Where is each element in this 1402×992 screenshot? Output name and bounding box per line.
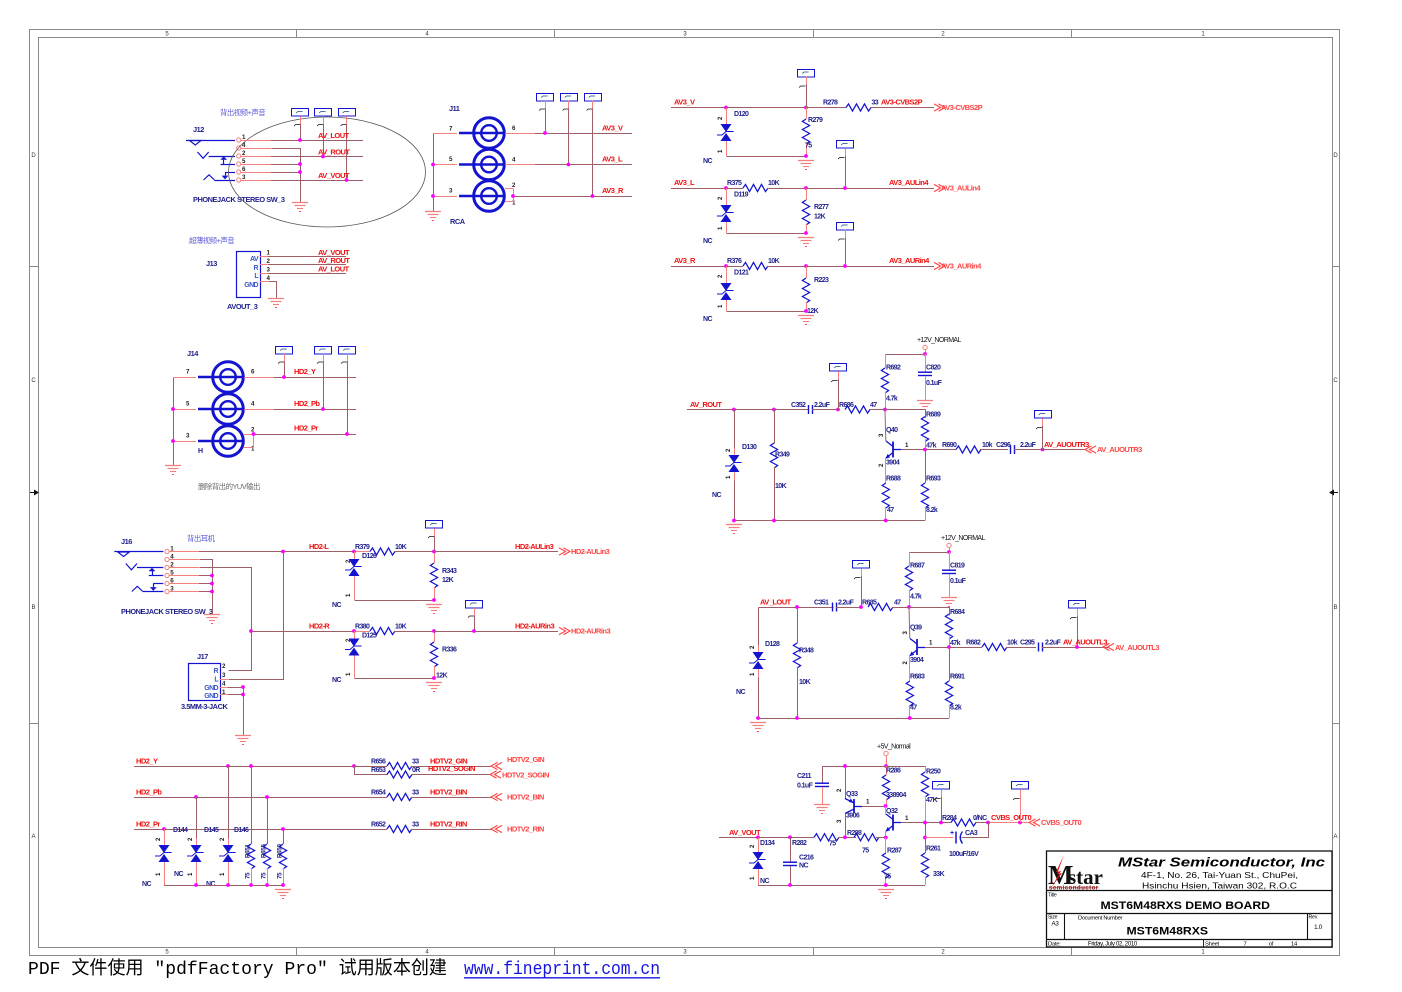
svg-text:J14: J14: [187, 349, 199, 358]
svg-text:背出耳机: 背出耳机: [187, 534, 216, 543]
svg-text:47: 47: [887, 507, 894, 514]
svg-text:J11: J11: [449, 104, 460, 113]
ground at Q40 block: [726, 524, 742, 526]
svg-text:3.5MM-3-JACK: 3.5MM-3-JACK: [181, 702, 228, 711]
svg-text:0.1uF: 0.1uF: [926, 380, 943, 387]
svg-text:33: 33: [412, 822, 419, 829]
svg-text:J12: J12: [193, 125, 204, 134]
svg-text:R690: R690: [942, 442, 957, 449]
resistor R348 10K: [793, 608, 814, 719]
diode D126: [332, 552, 435, 610]
wire AV3_V: [671, 98, 846, 110]
resistor R651 75: [245, 766, 255, 885]
power +12V_NORMAL at Q39: [941, 535, 985, 554]
svg-text:NC: NC: [703, 158, 712, 165]
svg-text:HDTV2_SOGIN: HDTV2_SOGIN: [428, 764, 475, 773]
off-page connector HDTV2_SOGIN: [490, 771, 549, 780]
wire HD2_Y from J14 pin6: [244, 367, 356, 379]
svg-text:NC: NC: [206, 881, 215, 888]
svg-text:4F-1, No. 26, Tai-Yuan St., Ch: 4F-1, No. 26, Tai-Yuan St., ChuPei,: [1141, 870, 1298, 880]
ground at R279: [798, 160, 814, 162]
svg-text:A: A: [31, 834, 35, 840]
svg-text:12K: 12K: [442, 577, 454, 584]
svg-text:75: 75: [805, 143, 812, 150]
svg-text:2.2uF: 2.2uF: [838, 600, 855, 607]
svg-text:R379: R379: [355, 544, 370, 551]
off-page connector HDTV2_GIN: [491, 755, 544, 770]
off-page connector AV3_AULin4: [934, 184, 981, 193]
svg-text:R691: R691: [950, 674, 965, 681]
resistor R650 75: [277, 829, 287, 885]
diode D119: [703, 188, 807, 245]
svg-text:R277: R277: [814, 204, 829, 211]
svg-text:HD2_Pr: HD2_Pr: [136, 820, 160, 829]
connector J12 phonejack: [186, 125, 285, 204]
svg-text:NC: NC: [703, 238, 712, 245]
no-connect flag at C351: [853, 561, 870, 608]
svg-text:HD2-AURin3: HD2-AURin3: [515, 622, 554, 631]
svg-text:R279: R279: [808, 117, 823, 124]
svg-text:AV3_AULin4: AV3_AULin4: [889, 178, 929, 187]
wire AV_VOUT at J13 pin1: [260, 248, 350, 257]
ground at J14: [165, 465, 181, 467]
svg-text:J13: J13: [206, 259, 217, 268]
svg-text:HD2-R: HD2-R: [309, 622, 330, 631]
resistor R653 0R: [355, 764, 491, 778]
off-page connector HDTV2_BIN: [491, 793, 544, 802]
svg-text:47: 47: [910, 705, 917, 712]
svg-text:J16: J16: [121, 537, 132, 546]
resistor R261 33K: [921, 823, 944, 886]
svg-text:R278: R278: [823, 100, 838, 107]
no-connect flag on AV3_V net: [798, 70, 815, 108]
power +5V_Normal: [877, 744, 911, 768]
transistor Q39 2N3904: [903, 625, 951, 665]
svg-text:7: 7: [1244, 941, 1247, 947]
svg-text:Q40: Q40: [886, 427, 898, 434]
svg-text:Rev: Rev: [1309, 915, 1318, 921]
svg-text:10K: 10K: [768, 258, 780, 265]
svg-text:R286: R286: [886, 768, 901, 775]
svg-text:R349: R349: [775, 452, 790, 459]
svg-text:C211: C211: [797, 773, 812, 780]
wire HD2-AURin3 output: [434, 622, 558, 633]
svg-text:AV_AUOUTR3: AV_AUOUTR3: [1044, 440, 1089, 449]
resistor R690 10k: [942, 442, 1008, 453]
connector J17 3.5mm jack: [181, 652, 228, 711]
wire HD2-R: [251, 622, 354, 632]
no-connect flag on AV3_AULin4: [837, 141, 854, 189]
svg-text:R380: R380: [355, 624, 370, 631]
wire AV_ROUT from J12 pin2: [241, 148, 364, 159]
svg-text:R686: R686: [839, 402, 854, 409]
svg-text:+: +: [950, 830, 954, 837]
svg-text:HDTV2_SOGIN: HDTV2_SOGIN: [502, 771, 549, 780]
svg-text:R375: R375: [727, 180, 742, 187]
no-connect flag on AV3_V at J11: [537, 94, 554, 134]
wire HD2_Pr from J14 pins 2 and 1: [244, 424, 356, 453]
svg-text:GND: GND: [204, 693, 218, 700]
svg-text:D134: D134: [760, 840, 775, 847]
svg-text:R223: R223: [814, 277, 829, 284]
svg-text:+5V_Normal: +5V_Normal: [877, 744, 911, 751]
svg-text:CVBS_OUT0: CVBS_OUT0: [1041, 818, 1081, 827]
svg-text:D125: D125: [362, 633, 377, 640]
diode D121: [703, 266, 807, 323]
svg-text:NC: NC: [332, 602, 341, 609]
resistor R336 12K: [430, 629, 457, 680]
no-connect flag on AV3_L at J11: [561, 94, 578, 165]
wire AV_LOUT at J13 pin3: [260, 264, 350, 273]
wire J13 pin4 to ground: [260, 282, 277, 299]
capacitor C296 2.2uF: [996, 442, 1085, 454]
svg-text:R656: R656: [371, 759, 386, 766]
svg-text:Hsinchu Hsien, Taiwan 302, R.O: Hsinchu Hsien, Taiwan 302, R.O.C: [1142, 881, 1297, 891]
svg-text:C351: C351: [814, 600, 829, 607]
resistor R652 33: [371, 820, 491, 833]
svg-text:超薄视频+声音: 超薄视频+声音: [189, 236, 234, 245]
svg-text:AV: AV: [250, 256, 259, 263]
resistor R693 8.2k: [921, 450, 941, 521]
svg-text:R343: R343: [442, 568, 457, 575]
svg-text:HD2_Pb: HD2_Pb: [136, 788, 162, 797]
svg-text:AV_AUOUTR3: AV_AUOUTR3: [1097, 445, 1142, 454]
wire J12 pin4/5/6 to ground: [241, 149, 302, 203]
svg-text:R653: R653: [371, 767, 386, 774]
wire HD2-L to R379: [352, 550, 370, 554]
wire J17 L to HD2-L: [220, 552, 284, 680]
svg-text:HD2-AULin3: HD2-AULin3: [515, 542, 554, 551]
MStar logo: [1048, 855, 1103, 892]
wire AV_VOUT: [719, 828, 814, 839]
svg-text:2.2uF: 2.2uF: [814, 402, 831, 409]
svg-text:10K: 10K: [799, 679, 811, 686]
resistor R691 8.2k: [945, 647, 965, 718]
resistor R284 0/NC: [942, 815, 988, 826]
svg-text:C352: C352: [791, 402, 806, 409]
svg-text:NC: NC: [799, 863, 808, 870]
wire HD2-R to R380: [352, 629, 370, 633]
wire +12V rail Q40: [885, 354, 925, 356]
no-connect flag at AV_AUOUTR3: [1035, 411, 1052, 450]
svg-text:75: 75: [277, 872, 284, 879]
svg-text:D119: D119: [734, 192, 749, 199]
svg-text:背出视频+声音: 背出视频+声音: [220, 108, 265, 117]
svg-text:C819: C819: [950, 563, 965, 570]
resistor R278 33: [823, 98, 934, 112]
wire Q39 base node: [909, 607, 949, 639]
svg-text:CA3: CA3: [965, 830, 978, 837]
wire HD2-AULin3 output: [434, 542, 558, 552]
wire Q40 base node: [885, 410, 925, 442]
capacitor C352 2.2uF: [791, 402, 840, 414]
svg-text:删除背出的YUV输出: 删除背出的YUV输出: [198, 482, 260, 491]
svg-text:0.1uF: 0.1uF: [797, 783, 814, 790]
svg-text:RCA: RCA: [450, 217, 466, 226]
svg-text:R688: R688: [886, 476, 901, 483]
resistor R687 4.7k: [905, 552, 925, 607]
svg-text:R348: R348: [799, 648, 814, 655]
diode D134: [749, 837, 775, 885]
wire +5V rail: [822, 764, 925, 768]
svg-text:R261: R261: [926, 846, 941, 853]
diode D144: [142, 827, 188, 888]
svg-text:R376: R376: [727, 258, 742, 265]
no-connect flag on HD2-AURin3: [466, 601, 483, 632]
svg-text:12K: 12K: [436, 673, 448, 680]
ellipse deletion mark: [229, 117, 426, 227]
svg-text:R651: R651: [245, 844, 252, 858]
svg-text:AV3-CVBS2P: AV3-CVBS2P: [941, 103, 983, 112]
svg-text:semiconductor: semiconductor: [1049, 885, 1099, 892]
svg-text:Document Number: Document Number: [1078, 916, 1123, 922]
svg-text:CVBS_OUT0: CVBS_OUT0: [991, 813, 1031, 822]
svg-text:HD2_Y: HD2_Y: [294, 367, 316, 376]
resistor R375 10K: [727, 180, 934, 192]
svg-text:14: 14: [1291, 941, 1298, 947]
svg-text:100uF/16V: 100uF/16V: [949, 851, 979, 858]
transistor Q33 2N3906: [837, 766, 886, 838]
svg-text:Title: Title: [1048, 893, 1057, 899]
svg-text:338904: 338904: [886, 792, 906, 799]
svg-text:H: H: [198, 448, 203, 455]
wire J14 left common to ground: [171, 378, 196, 466]
power +12V_NORMAL at Q40: [917, 337, 961, 356]
connector J16 phonejack: [114, 537, 213, 616]
resistor R683 47: [906, 655, 925, 718]
svg-text:0R: 0R: [412, 767, 420, 774]
capacitor C351 2.2uF: [814, 600, 863, 612]
svg-text:HDTV2_RIN: HDTV2_RIN: [507, 825, 544, 834]
wire HD2_Pb: [134, 788, 387, 799]
svg-text:2.2uF: 2.2uF: [1045, 640, 1062, 647]
resistor R343 12K: [430, 550, 457, 602]
wire J17 GND pins to ground: [220, 685, 245, 735]
wire HD2_Pr: [134, 820, 387, 831]
svg-text:R685: R685: [862, 600, 877, 607]
svg-text:12K: 12K: [814, 214, 826, 221]
svg-text:AV3_AURin4: AV3_AURin4: [941, 262, 982, 271]
ground at HDTV2 block: [275, 889, 291, 891]
no-connect flag on AV_VOUT: [339, 109, 356, 181]
ground at R277: [798, 237, 814, 239]
svg-text:R287: R287: [887, 848, 902, 855]
svg-text:Sheet: Sheet: [1205, 941, 1220, 947]
svg-text:C295: C295: [1020, 640, 1035, 647]
ground at Q39 block: [750, 722, 766, 724]
resistor R286 33: [882, 766, 906, 808]
svg-text:1.0: 1.0: [1314, 924, 1323, 931]
connector J13 AVOUT_3: [206, 250, 271, 312]
svg-text:R: R: [214, 668, 219, 675]
resistor R349 10K: [770, 410, 790, 521]
svg-text:75: 75: [884, 874, 891, 881]
svg-text:3904: 3904: [910, 657, 924, 664]
resistor R379 10K: [355, 544, 434, 555]
svg-text:D126: D126: [362, 553, 377, 560]
svg-text:Q39: Q39: [910, 625, 922, 632]
svg-text:HDTV2_BIN: HDTV2_BIN: [430, 788, 467, 797]
no-connect flag at AV_AUOUTL3: [1069, 601, 1086, 648]
svg-text:NC: NC: [712, 492, 721, 499]
off-page connector HD2-AURin3: [559, 627, 610, 636]
svg-text:R684: R684: [950, 609, 965, 616]
svg-text:AV_AUOUTL3: AV_AUOUTL3: [1063, 638, 1107, 647]
svg-text:A3: A3: [1052, 921, 1060, 928]
svg-text:AV_VOUT: AV_VOUT: [729, 828, 761, 837]
svg-text:MST6M48RXS DEMO BOARD: MST6M48RXS DEMO BOARD: [1101, 900, 1271, 912]
wire AV3_V from J11 pin6: [505, 124, 632, 135]
ground at R223: [798, 315, 814, 317]
svg-text:AV_LOUT: AV_LOUT: [760, 598, 792, 607]
wire AV3_L: [671, 178, 743, 190]
svg-text:C: C: [31, 378, 36, 384]
resistor R689 47k: [921, 410, 941, 450]
svg-text:R652: R652: [371, 822, 386, 829]
title block: [1047, 851, 1333, 947]
off-page connector CVBS_OUT0: [1029, 818, 1081, 827]
ground at C820: [917, 400, 933, 402]
diode D125: [332, 631, 435, 684]
wire ground rail CVBS block: [758, 883, 925, 887]
no-connect flag at R250 node: [933, 782, 950, 823]
svg-text:HD2_Pb: HD2_Pb: [294, 399, 320, 408]
off-page connector AV3_AURin4: [934, 262, 982, 271]
no-connect flag on AV3_AURin4: [837, 223, 854, 267]
diode D128: [736, 608, 780, 719]
svg-text:3906: 3906: [846, 813, 860, 820]
resistor R250 47K: [921, 766, 941, 823]
svg-text:AV3_R: AV3_R: [674, 256, 696, 265]
wire J11 left common to ground: [431, 134, 466, 227]
svg-text:47: 47: [870, 402, 877, 409]
svg-text:PDF 文件使用 "pdfFactory Pro" 试用版本: PDF 文件使用 "pdfFactory Pro" 试用版本创建: [28, 958, 447, 980]
svg-text:47k: 47k: [950, 640, 961, 647]
resistor R692 4.7k: [881, 354, 901, 410]
resistor R223 12K: [802, 266, 829, 315]
ground at R336: [426, 682, 442, 684]
svg-text:J17: J17: [197, 652, 208, 661]
svg-text:D120: D120: [734, 111, 749, 118]
svg-text:10k: 10k: [982, 442, 993, 449]
off-page connector HD2-AULin3: [559, 547, 610, 556]
svg-text:www.fineprint.com.cn: www.fineprint.com.cn: [464, 959, 660, 980]
svg-text:D128: D128: [765, 641, 780, 648]
wire ground rail Q40 block: [732, 519, 925, 523]
off-page connector AV_AUOUTL3: [1103, 643, 1159, 652]
resistor R682 10k: [966, 640, 1036, 651]
svg-text:HDTV2_GIN: HDTV2_GIN: [507, 755, 544, 764]
svg-text:of: of: [1269, 941, 1274, 947]
svg-text:8.2k: 8.2k: [926, 507, 938, 514]
resistor R686 47: [839, 402, 887, 413]
capacitor C211 0.1uF: [797, 767, 829, 805]
svg-text:R655: R655: [261, 844, 268, 858]
svg-text:R284: R284: [942, 815, 957, 822]
ground at R343: [426, 604, 442, 606]
resistor R282 75: [792, 834, 856, 848]
svg-text:R689: R689: [926, 412, 941, 419]
wire AV_VOUT from J12 pin3: [241, 171, 364, 182]
svg-text:0.1uF: 0.1uF: [950, 578, 967, 585]
wire AV3_R from J11 pins 2 and 1: [505, 182, 632, 207]
svg-text:D: D: [31, 153, 36, 159]
ground at J17: [235, 735, 251, 737]
no-connect flag at C352: [830, 364, 847, 410]
svg-text:R687: R687: [910, 563, 925, 570]
capacitor CA3 100uF/16V polarized: [925, 823, 989, 859]
svg-text:HDTV2_BIN: HDTV2_BIN: [507, 793, 544, 802]
svg-text:NC: NC: [736, 689, 745, 696]
svg-text:10K: 10K: [768, 180, 780, 187]
no-connect flag on HD2_Y: [276, 347, 293, 378]
svg-text:AV3-CVBS2P: AV3-CVBS2P: [881, 98, 923, 107]
svg-text:33: 33: [412, 790, 419, 797]
svg-text:R682: R682: [966, 640, 981, 647]
capacitor C295 2.2uF: [1020, 640, 1108, 652]
svg-text:8.2k: 8.2k: [950, 705, 962, 712]
svg-text:AV3_AULin4: AV3_AULin4: [941, 184, 981, 193]
svg-text:AV_LOUT: AV_LOUT: [318, 264, 350, 273]
ground at C211: [814, 804, 830, 806]
svg-text:AV3_L: AV3_L: [674, 178, 695, 187]
wire ground rail HDTV2 block: [164, 883, 285, 887]
wire AV_LOUT from J12 pin1: [241, 131, 364, 142]
svg-text:10k: 10k: [1007, 640, 1018, 647]
wire HD2-L from J16 pin1: [169, 542, 354, 553]
ground at J11: [425, 211, 441, 213]
svg-text:NC: NC: [332, 677, 341, 684]
diode D120: [703, 108, 807, 166]
svg-text:4.7k: 4.7k: [886, 396, 898, 403]
wire AV3_L from J11 pin4: [505, 155, 632, 167]
svg-text:AV_ROUT: AV_ROUT: [690, 400, 722, 409]
svg-text:R654: R654: [371, 790, 386, 797]
connector J14 RCA YPbPr: [186, 349, 244, 456]
wire AV_ROUT: [687, 400, 809, 411]
svg-text:MStar Semiconductor, Inc: MStar Semiconductor, Inc: [1118, 855, 1326, 870]
svg-text:AV3_AURin4: AV3_AURin4: [889, 256, 930, 265]
diode D146: [206, 766, 249, 888]
svg-text:HDTV2_RIN: HDTV2_RIN: [430, 820, 467, 829]
svg-text:+12V_NORMAL: +12V_NORMAL: [917, 337, 961, 344]
transistor Q40 2N3904: [879, 427, 927, 467]
wire +12V rail Q39: [909, 552, 949, 554]
svg-text:HD2_Pr: HD2_Pr: [294, 424, 318, 433]
svg-text:C820: C820: [926, 365, 941, 372]
svg-text:R693: R693: [926, 476, 941, 483]
no-connect flag on AV_LOUT: [292, 109, 309, 141]
svg-text:GND: GND: [204, 685, 218, 692]
svg-text:3904: 3904: [886, 460, 900, 467]
svg-text:R282: R282: [792, 840, 807, 847]
no-connect flag on HD2_Pb: [315, 347, 332, 410]
svg-text:D: D: [1333, 153, 1338, 159]
svg-text:AV3_V: AV3_V: [602, 124, 623, 133]
svg-text:AV_ROUT: AV_ROUT: [318, 148, 350, 157]
resistor R277 12K: [802, 188, 829, 235]
svg-text:0/NC: 0/NC: [973, 815, 987, 822]
svg-text:+12V_NORMAL: +12V_NORMAL: [941, 535, 985, 542]
svg-text:D121: D121: [734, 270, 749, 277]
svg-text:Friday, July 02, 2010: Friday, July 02, 2010: [1088, 941, 1138, 947]
resistor R279 75: [802, 108, 823, 158]
svg-text:33: 33: [412, 759, 419, 766]
svg-text:R683: R683: [910, 674, 925, 681]
capacitor C819 0.1uF: [942, 552, 967, 598]
resistor R380 10K: [355, 624, 434, 635]
svg-text:AVOUT_3: AVOUT_3: [227, 302, 258, 311]
